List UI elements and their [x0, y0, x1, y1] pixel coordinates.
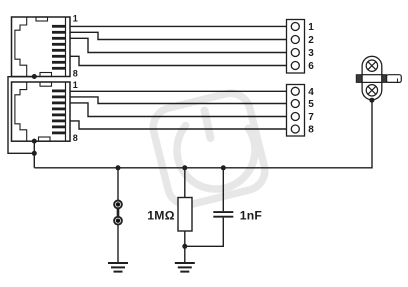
- node jack2 shield: [32, 139, 37, 144]
- capacitor C 1nF: [222, 168, 224, 211]
- node jack1 shield: [32, 74, 37, 79]
- RJ45 jack J1: [12, 17, 71, 77]
- ground left: [108, 263, 128, 272]
- wire J2 pin1 to terminal 4: [70, 90, 287, 92]
- wire J1 pin6 to terminal 6: [70, 56, 287, 65]
- wire J2 pin3 to terminal 7: [70, 103, 287, 117]
- svg-text:7: 7: [308, 112, 314, 123]
- resistor R 1MOhm: [184, 168, 186, 198]
- wire J1 pin1 to terminal 1: [70, 25, 287, 27]
- terminal block X1: [287, 20, 305, 74]
- svg-text:1nF: 1nF: [240, 208, 262, 222]
- node arrester bottom: [369, 98, 374, 103]
- node bus spark gap: [116, 165, 121, 170]
- svg-text:8: 8: [73, 69, 78, 79]
- svg-text:5: 5: [308, 99, 314, 110]
- svg-text:8: 8: [73, 133, 78, 143]
- wire J2 pin2 to terminal 5: [70, 97, 287, 104]
- svg-text:1: 1: [308, 22, 314, 33]
- wire J2 shield down to bus: [33, 141, 35, 168]
- wire J1 shield from jack1 bottom around left: [8, 77, 34, 154]
- wire ground bus: [34, 100, 372, 168]
- svg-text:1MΩ: 1MΩ: [147, 208, 175, 222]
- svg-text:4: 4: [308, 87, 314, 98]
- spark gap electrode top: [114, 201, 122, 209]
- node resistor bottom: [182, 244, 187, 249]
- svg-text:1: 1: [73, 14, 78, 24]
- wire spark gap branch: [117, 168, 119, 263]
- RJ45 jack J2: [12, 82, 71, 142]
- svg-text:3: 3: [308, 48, 314, 59]
- node bus capacitor: [221, 165, 226, 170]
- J1 pins 1-8: [52, 26, 66, 68]
- surge arrester: [356, 56, 401, 100]
- svg-text:1: 1: [73, 80, 78, 90]
- node shield join: [32, 151, 37, 156]
- svg-text:2: 2: [308, 35, 314, 46]
- svg-text:6: 6: [308, 61, 314, 72]
- terminal block X2: [287, 85, 305, 137]
- J2 pins 1-8: [52, 91, 66, 133]
- wire J1 pin2 to terminal 2: [70, 32, 287, 39]
- watermark logo: [149, 89, 269, 209]
- ground middle: [175, 263, 195, 272]
- node bus resistor: [182, 165, 187, 170]
- wire J2 pin6 to terminal 8: [70, 121, 287, 129]
- svg-text:8: 8: [308, 125, 314, 136]
- wire J1 pin3 to terminal 3: [70, 38, 287, 52]
- spark gap electrode bottom: [114, 217, 122, 225]
